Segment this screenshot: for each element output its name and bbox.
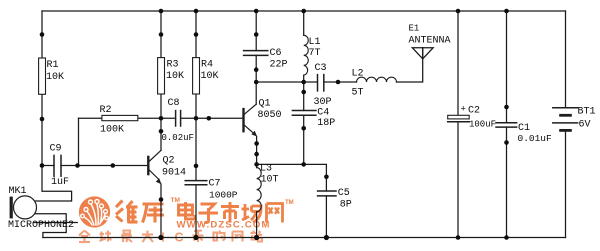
inductor L3 — [257, 168, 262, 212]
svg-text:L2: L2 — [352, 69, 364, 80]
junction R1 lead — [40, 32, 45, 37]
wire C9 left lead — [42, 165, 54, 167]
junction C3 / L2 wire — [336, 80, 341, 85]
capacitor C6 plates — [244, 51, 268, 56]
junction ground rail / L3 — [254, 235, 259, 240]
junction ground rail / Q2 emitter — [158, 235, 163, 240]
svg-text:Q2: Q2 — [163, 156, 175, 167]
capacitor C4 plates — [292, 111, 316, 116]
resistor R1 — [39, 58, 46, 94]
wire microphone label underline — [34, 222, 77, 224]
svg-text:8050: 8050 — [258, 110, 282, 121]
big glyph WEI 维 — [116, 201, 138, 223]
svg-text:E1: E1 — [409, 24, 420, 34]
svg-text:R1: R1 — [47, 60, 59, 71]
capacitor C2 electrolytic plates — [448, 115, 470, 121]
capacitor C9 plates — [54, 155, 61, 176]
svg-text:BT1: BT1 — [578, 107, 596, 118]
big glyph CHANG 场 — [242, 204, 262, 223]
svg-text:22P: 22P — [270, 60, 288, 71]
svg-text:9014: 9014 — [162, 168, 186, 179]
logo disc — [79, 196, 110, 227]
wire R3 top lead — [160, 11, 162, 58]
svg-text:ANTENNA: ANTENNA — [409, 36, 451, 47]
junction Q1 emitter lead 1 — [254, 141, 259, 146]
junction L1 / C3 wire — [301, 80, 306, 85]
junction top rail / R4 — [194, 9, 199, 14]
wire Q2 emitter to ground — [160, 184, 162, 238]
junction top rail / C1 — [504, 9, 509, 14]
resistor R3 — [158, 58, 165, 94]
wire C6 to Q1 collector — [255, 55, 257, 104]
gou — [214, 231, 225, 241]
wire L2 to antenna — [397, 48, 423, 82]
svg-text:30P: 30P — [314, 97, 332, 108]
junction ground rail / C5 — [324, 235, 329, 240]
wire C9 right to Q2 base — [61, 165, 148, 167]
junction top rail / C2 — [456, 9, 461, 14]
wire battery top lead — [565, 11, 567, 107]
junction Q1 emitter lead 2 — [254, 152, 259, 157]
wire C5 bottom lead — [325, 196, 327, 238]
cai — [193, 231, 204, 243]
inductor L1 — [304, 35, 309, 75]
svg-text:100K: 100K — [100, 125, 124, 136]
wire C8 left lead — [161, 117, 176, 119]
svg-text:C9: C9 — [50, 144, 62, 155]
wire top supply rail — [42, 10, 566, 12]
da — [142, 231, 153, 243]
qiu — [100, 231, 112, 242]
svg-text:C7: C7 — [209, 179, 221, 190]
capacitor C8 plates — [176, 111, 181, 126]
big glyph DIAN 电 — [179, 202, 196, 219]
junction C9/R2 — [75, 163, 80, 168]
wire Q1 collector node to C3 — [256, 81, 317, 83]
junction R4 lead — [194, 32, 199, 37]
wire C7 bottom lead — [195, 185, 197, 238]
wire R2 right lead — [138, 117, 161, 119]
svg-text:C2: C2 — [468, 106, 480, 117]
wire R2 vertical branch — [78, 118, 80, 165]
capacitor C5 plates — [318, 191, 336, 196]
junction ground rail / C7 — [193, 235, 198, 240]
svg-text:C5: C5 — [338, 188, 350, 199]
svg-text:1uF: 1uF — [51, 177, 69, 188]
junction Q1 emitter / L3 / tap wire — [254, 162, 259, 167]
wire L3 top lead — [256, 164, 258, 167]
junction ground rail / C1 — [504, 235, 509, 240]
wire C1 top lead — [506, 11, 508, 123]
svg-text:5T: 5T — [352, 88, 364, 99]
svg-text:L1: L1 — [309, 37, 321, 48]
wire R4 top lead — [195, 11, 197, 58]
junction Q1 collector lead upper — [254, 67, 259, 72]
svg-text:R2: R2 — [100, 105, 112, 116]
junction top rail / R3 — [159, 9, 164, 14]
svg-text:+: + — [461, 105, 466, 115]
big glyph WANG 网 — [267, 204, 283, 223]
wire node A to microphone terminal 1 — [35, 166, 71, 202]
capacitor C7 plates — [185, 181, 207, 185]
junction C4 top lead — [301, 90, 306, 95]
transistor Q1 — [244, 104, 258, 136]
big glyph ZI 子 — [199, 204, 219, 223]
wire C8 right to Q1 base — [181, 117, 244, 119]
junction Q2 emitter lead — [159, 197, 164, 202]
svg-text:C6: C6 — [270, 48, 282, 59]
svg-text:L3: L3 — [260, 164, 272, 175]
svg-text:R4: R4 — [201, 60, 213, 71]
wire C1 bottom lead — [506, 127, 508, 237]
svg-text:10T: 10T — [261, 175, 279, 186]
wire R2 left lead — [79, 117, 102, 119]
node A R1/C9/microphone — [40, 163, 45, 168]
junction C1 bottom lead — [504, 140, 509, 145]
svg-text:6V: 6V — [579, 120, 591, 131]
svg-text:10K: 10K — [46, 72, 64, 83]
wang2 — [233, 232, 243, 242]
wire L1 bottom to C4 — [303, 75, 305, 110]
svg-text:MK1: MK1 — [9, 186, 27, 197]
wire C6 top lead — [255, 11, 257, 51]
svg-text:8P: 8P — [340, 200, 352, 211]
wire L3 bottom lead — [256, 212, 258, 238]
inductor L2 — [357, 77, 397, 82]
svg-text:R3: R3 — [167, 60, 179, 71]
antenna E1 symbol — [412, 48, 433, 59]
junction C8/R4 node — [194, 116, 199, 121]
transistor Q2 — [148, 150, 161, 184]
junction C4 bottom lead — [301, 126, 306, 131]
svg-text:MICROPHONE2: MICROPHONE2 — [8, 220, 74, 231]
junction ground rail / C2 — [456, 235, 461, 240]
svg-text:100uF: 100uF — [469, 120, 496, 130]
svg-text:0.02uF: 0.02uF — [162, 133, 194, 143]
wire C2 bottom lead — [457, 122, 459, 238]
svg-text:0.01uF: 0.01uF — [518, 133, 553, 144]
wire C4 bottom lead — [303, 115, 305, 164]
wire R4 bottom to C7 — [195, 94, 197, 181]
wire L1 top lead — [303, 11, 305, 35]
junction top rail / C6 — [254, 9, 259, 14]
svg-text:10K: 10K — [166, 71, 184, 82]
junction C6 lead — [254, 32, 259, 37]
junction Q1 base wire — [207, 116, 212, 121]
big glyph SHI 市 — [221, 202, 239, 223]
svg-text:18P: 18P — [317, 118, 335, 129]
capacitor C3 plates — [318, 75, 324, 91]
svg-text:1000P: 1000P — [209, 190, 238, 201]
microphone MK1 symbol — [10, 196, 37, 219]
quan — [79, 231, 90, 243]
junction left rail mid — [40, 117, 45, 122]
junction Q1 collector / C3 wire — [254, 80, 259, 85]
junction R4/C7 — [194, 164, 199, 169]
junction C4 / emitter tap wire — [301, 162, 306, 167]
junction C1 top lead — [504, 105, 509, 110]
wire battery bottom lead — [565, 132, 567, 238]
wire R3 bottom to Q2 collector — [160, 94, 162, 150]
battery BT1 plates — [553, 108, 578, 132]
zhan — [251, 231, 263, 242]
bottom row small glyphs — [79, 231, 262, 243]
wire left rail lower — [41, 94, 43, 165]
wire C3 right to L2 — [324, 81, 357, 83]
junction Q2 collector lead — [159, 129, 164, 134]
svg-text:Q1: Q1 — [259, 99, 271, 110]
resistor R2 — [102, 115, 138, 120]
wire Q1 emitter tap to C5 — [257, 164, 327, 191]
wire bottom ground rail — [43, 237, 566, 239]
svg-text:C4: C4 — [317, 107, 329, 118]
wire left rail upper — [41, 11, 43, 58]
junction R2/R3/C8 node — [159, 116, 164, 121]
junction Q2 base wire — [111, 163, 116, 168]
wire Q1 emitter vertical — [256, 137, 258, 165]
capacitor C1 plates — [496, 123, 517, 127]
big glyph KU 库 — [143, 204, 165, 223]
junction top rail / L1 — [301, 9, 306, 14]
junction R3 lead — [159, 32, 164, 37]
svg-text:10K: 10K — [201, 71, 219, 82]
svg-text:C3: C3 — [315, 63, 327, 74]
zui — [121, 231, 132, 243]
svg-text:C8: C8 — [168, 98, 180, 109]
wire microphone terminal 2 to ground rail — [35, 214, 66, 238]
junction C5 top lead — [324, 175, 329, 180]
resistor R4 — [193, 58, 200, 94]
wire C2 top lead — [457, 11, 459, 115]
svg-text:7T: 7T — [309, 48, 321, 59]
